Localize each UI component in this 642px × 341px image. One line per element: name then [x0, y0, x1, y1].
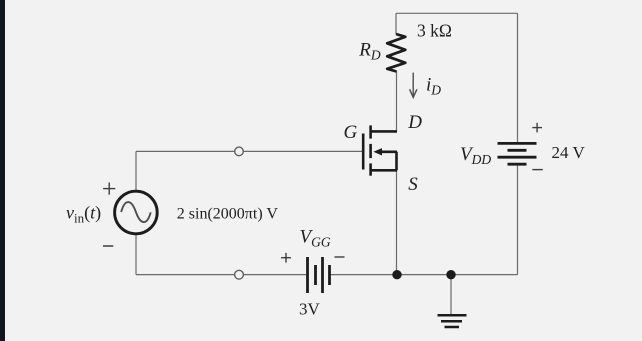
- drain lead: [371, 130, 397, 133]
- wire: bottom rail left segment to VGG battery: [136, 274, 306, 276]
- svg-text:3V: 3V: [299, 300, 321, 319]
- plus sign of VGG: [281, 253, 291, 263]
- minus sign of vin: [103, 245, 113, 247]
- svg-text:D: D: [407, 112, 422, 133]
- wire: left rail top (gate wire down to source circle): [135, 151, 137, 191]
- body lead: [381, 151, 398, 154]
- resistor RD (zigzag): [387, 34, 405, 72]
- node: open terminal on bottom rail: [235, 270, 244, 279]
- left dark edge bar: [0, 0, 5, 341]
- channel segment (drain side): [369, 125, 372, 138]
- svg-text:3 kΩ: 3 kΩ: [417, 21, 452, 41]
- plate long top: [498, 142, 537, 145]
- svg-text:G: G: [344, 122, 358, 143]
- source VDD (battery): [498, 143, 537, 164]
- wire: MOSFET source down to bottom rail: [396, 170, 398, 275]
- svg-text:24 V: 24 V: [552, 143, 586, 162]
- source lead: [371, 169, 397, 172]
- wire: resistor bottom to MOSFET drain: [396, 71, 398, 131]
- plate tall: [321, 257, 324, 293]
- plate long: [498, 156, 537, 159]
- transistor M1 (n-channel MOSFET): [363, 125, 397, 175]
- wire: resistor top stub: [395, 13, 397, 34]
- sine wave inside vin: [121, 202, 151, 222]
- body arrow of MOSFET: [373, 148, 382, 155]
- wire: ground stub: [450, 275, 452, 315]
- wire: right rail down to VDD battery: [517, 13, 519, 142]
- junction node at ground tap: [446, 270, 455, 279]
- svg-text:S: S: [408, 174, 418, 195]
- wire: left rail bottom (source circle down to bottom rail): [135, 234, 137, 275]
- wire: right rail from VDD battery down to bottom rail: [517, 165, 519, 275]
- source VGG (battery): [308, 257, 330, 293]
- wire: bottom rail right segment from VGG battery to right rail: [331, 274, 518, 276]
- plate tall left (+): [306, 257, 309, 293]
- minus sign of VDD: [532, 169, 543, 171]
- current arrow iD: [410, 73, 417, 98]
- channel segment (body): [369, 144, 372, 158]
- plate short right (-): [328, 265, 331, 285]
- gate bar: [362, 134, 365, 170]
- ground: [438, 315, 467, 327]
- minus sign of VGG: [335, 256, 345, 258]
- junction node at MOSFET source / bottom rail: [392, 270, 401, 279]
- plate short bottom: [508, 163, 527, 166]
- plus sign of VDD: [532, 123, 542, 133]
- plus sign of vin: [103, 183, 115, 195]
- svg-text:2 sin(2000πt) V: 2 sin(2000πt) V: [177, 205, 279, 222]
- body-source tie: [395, 152, 398, 171]
- source vin (sine source): [115, 191, 158, 234]
- wire: top rail from resistor top to right rail: [396, 12, 518, 14]
- plate short: [508, 149, 527, 152]
- node: open terminal on gate wire: [235, 147, 244, 156]
- plate short: [314, 265, 317, 285]
- svg-text:vin(t): vin(t): [66, 203, 101, 226]
- channel segment (source side): [369, 163, 372, 175]
- wire: gate wire from left rail to MOSFET gate: [136, 150, 362, 152]
